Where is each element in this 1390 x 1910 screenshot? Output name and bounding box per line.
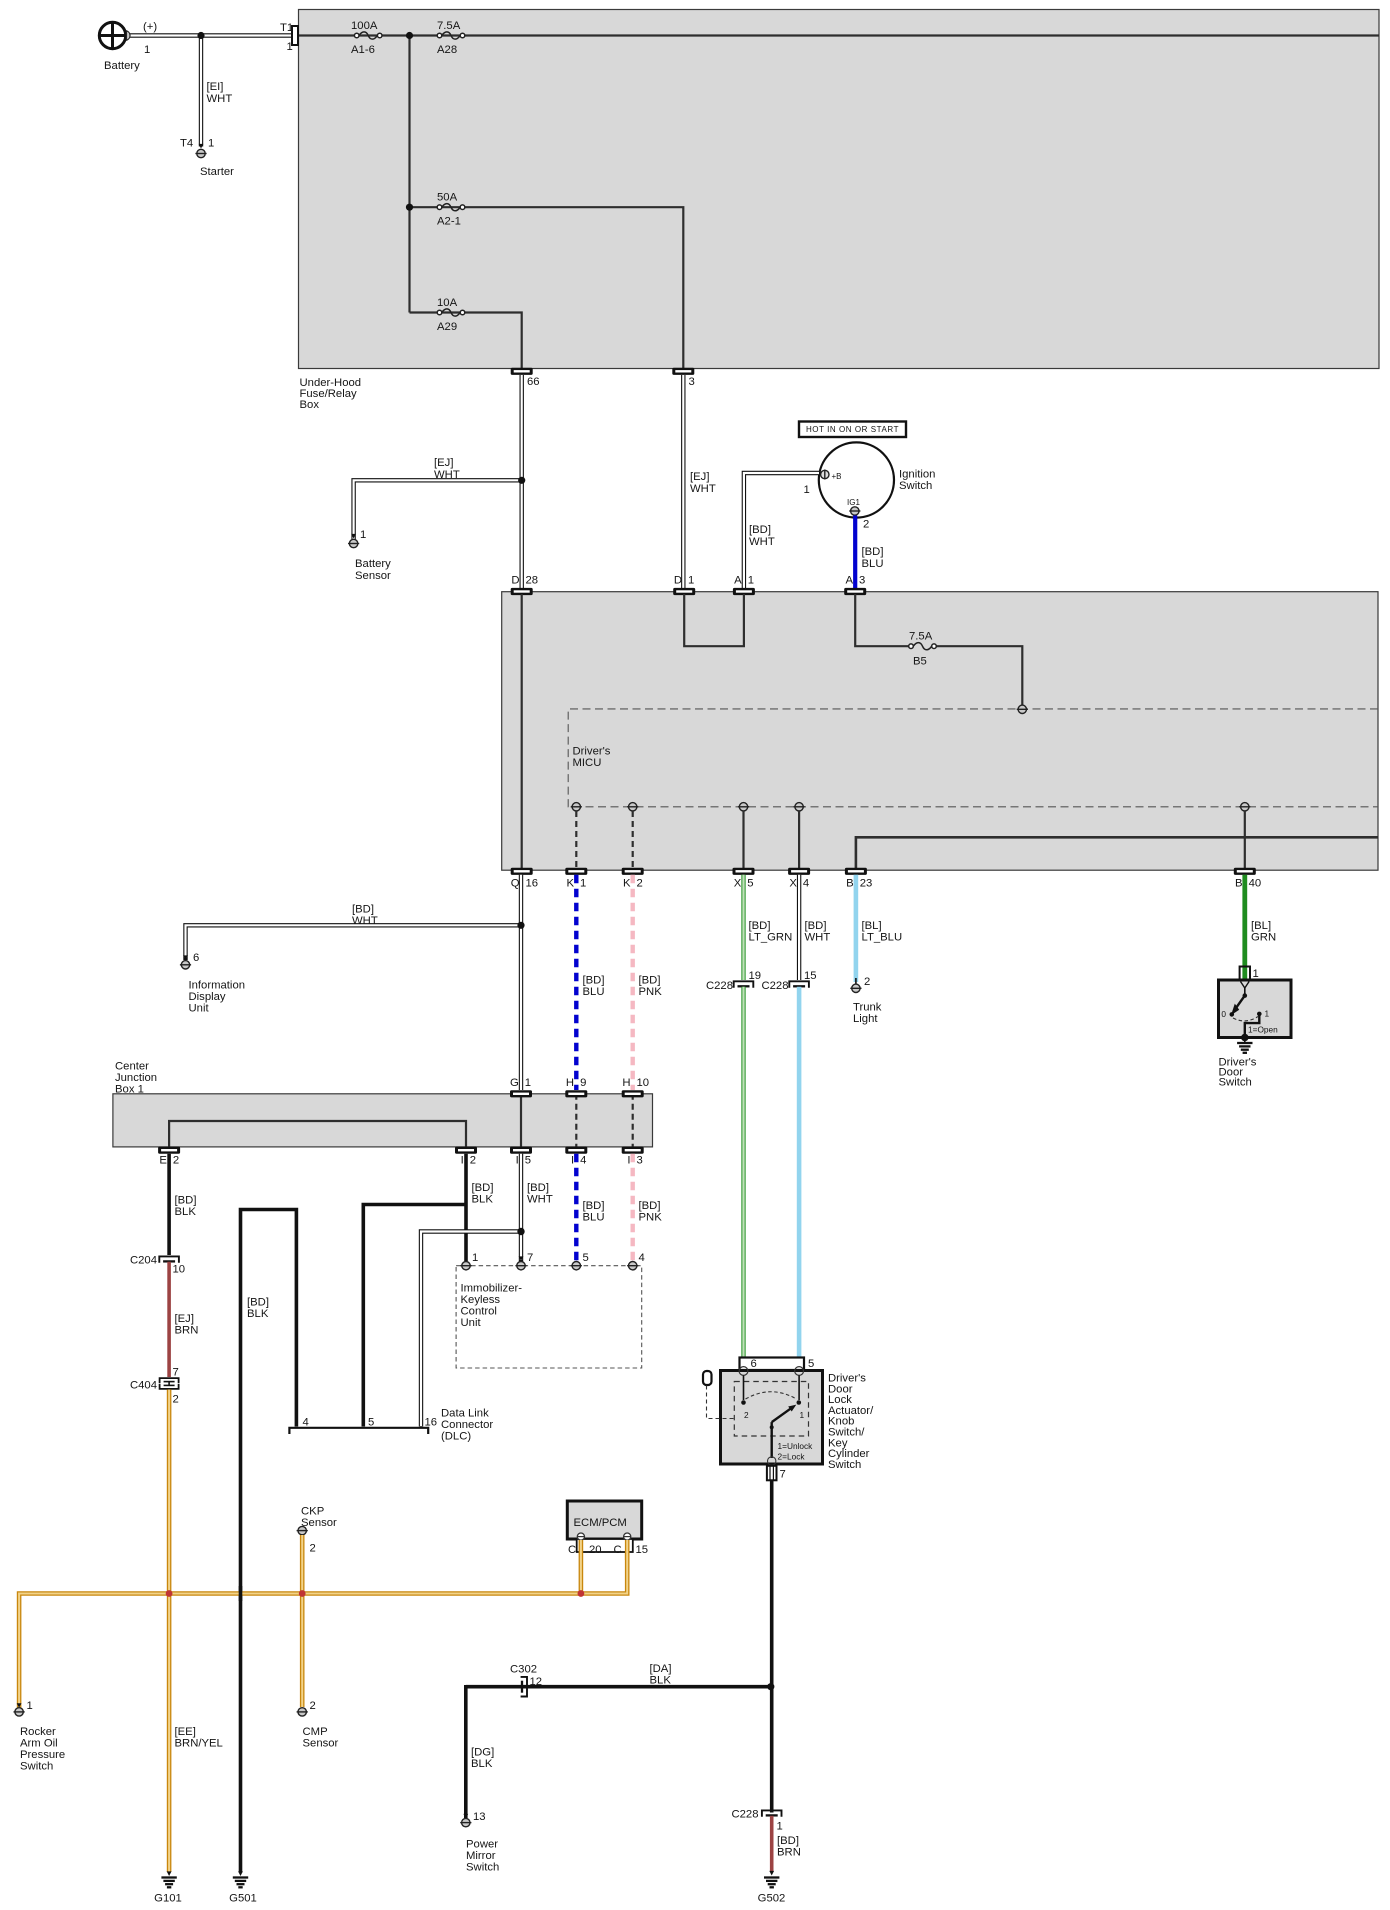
svg-text:C404: C404 [130,1380,157,1392]
svg-text:LT_BLU: LT_BLU [862,932,903,944]
svg-text:Switch: Switch [828,1459,861,1471]
svg-text:[BD]: [BD] [777,1835,799,1847]
label [DA] BLK [650,1663,672,1687]
dashed arc between contacts [746,1392,797,1399]
pin 7 connector [767,1466,786,1481]
wire C204 -> C404 maroon [167,1262,171,1377]
connector A3 [844,575,866,596]
CJB internal wire H10 - I3 dashed [632,1094,634,1147]
svg-text:Unit: Unit [189,1003,210,1015]
label [BD] BRN [777,1835,801,1859]
svg-text:1: 1 [525,1077,531,1089]
wire K2 -> H10 dashed pink [631,875,635,1090]
svg-text:BLK: BLK [650,1675,672,1687]
svg-text:3: 3 [689,376,695,388]
svg-text:CMP: CMP [303,1726,328,1738]
trunk light terminal [850,976,882,1025]
svg-text:0: 0 [1221,1009,1226,1019]
svg-text:C: C [568,1544,576,1556]
svg-text:G: G [510,1077,519,1089]
wire terminal -> K1 (dashed) [575,811,577,868]
svg-text:(+): (+) [143,21,157,33]
svg-text:Q: Q [511,878,520,890]
label [BD] PNK [639,975,663,999]
wire B40 -> door switch (green) [1242,875,1247,980]
svg-text:T1: T1 [280,22,293,34]
wire branch to information display unit (white double) [183,925,521,960]
svg-text:WHT: WHT [527,1194,553,1206]
svg-text:2: 2 [470,1155,476,1167]
dashed internal rect [734,1382,808,1437]
svg-text:7: 7 [173,1367,179,1379]
svg-text:BLU: BLU [862,558,884,570]
svg-text:7: 7 [527,1252,533,1264]
ground G101 [154,1878,182,1905]
svg-text:BRN: BRN [777,1847,801,1859]
svg-text:66: 66 [527,376,540,388]
svg-text:IG1: IG1 [847,498,860,507]
key cylinder symbol [703,1371,734,1419]
wire D28 -> Q16 inside MICU [521,594,523,868]
svg-text:5: 5 [747,878,753,890]
svg-text:Sensor: Sensor [355,570,391,582]
immobilizer pin 4 [627,1252,645,1270]
information display unit terminal [180,952,245,1015]
label [BD] WHT [805,920,831,944]
connector K1 [565,868,587,890]
svg-text:[EI]: [EI] [207,81,224,93]
fuse 10A A29 [437,297,465,333]
svg-text:I: I [627,1155,630,1167]
svg-text:Driver's: Driver's [573,746,611,758]
svg-text:13: 13 [473,1811,486,1823]
label [BD] BLK [175,1195,197,1219]
ground G501 [229,1878,257,1905]
svg-text:[BD]: [BD] [749,920,771,932]
MICU internal terminal (fuse B5 output) [1017,705,1028,713]
svg-text:1: 1 [27,1700,33,1712]
wire I5 -> immobilizer pin 7 white double, branch to DLC 16 [421,1154,521,1427]
svg-text:3: 3 [637,1155,643,1167]
label [BD] BLU [862,546,884,570]
wire C228 -> door lock pin 6 (green double) [741,987,745,1368]
svg-text:Light: Light [853,1013,878,1025]
svg-text:C228: C228 [731,1809,758,1821]
wire B23 -> trunk light (light blue) [854,875,859,982]
svg-text:B: B [846,878,854,890]
svg-text:H: H [622,1077,630,1089]
svg-text:3: 3 [859,575,865,587]
svg-text:BRN/YEL: BRN/YEL [175,1738,223,1750]
+B terminal [804,470,842,497]
wire CKP -> CMP orange [300,1535,305,1707]
svg-text:10A: 10A [437,297,458,309]
junction dot CKP wire x bus [299,1590,306,1597]
svg-text:40: 40 [1249,878,1262,890]
label [EJ] WHT at wire 3 [690,471,716,495]
wire I4 -> immobilizer pin 5 dashed blue [574,1154,578,1262]
svg-text:Box 1: Box 1 [115,1084,144,1096]
wire B23 up and right to box edge [856,837,1378,868]
wire X4 -> C228 15 (white double) [797,875,801,980]
svg-text:5: 5 [808,1358,814,1370]
svg-text:Switch: Switch [466,1862,499,1874]
label [BD] BLU [583,975,605,999]
svg-text:2: 2 [637,878,643,890]
svg-text:[BD]: [BD] [527,1182,549,1194]
svg-text:HOT IN ON OR START: HOT IN ON OR START [806,425,899,434]
[DA] BLK horizontal wire [466,1685,771,1689]
connector C302 12 [510,1664,542,1697]
ECM connector bracket [568,1533,648,1556]
svg-text:(DLC): (DLC) [441,1431,471,1443]
junction dot G101 wire x bus [166,1590,173,1597]
svg-text:1: 1 [777,1821,783,1833]
svg-text:16: 16 [425,1417,438,1429]
CMP sensor [297,1700,339,1750]
svg-text:1: 1 [688,575,694,587]
svg-text:PNK: PNK [639,1212,663,1224]
wire A3 -> fuse B5 -> internal terminal [855,594,1022,705]
fuse 7.5A A28 [437,20,465,56]
svg-text:Switch: Switch [1219,1077,1252,1089]
svg-text:[BD]: [BD] [175,1195,197,1207]
wire: 50A branch to connector 3 [410,207,684,368]
label [BD] LT_GRN [749,920,793,944]
pin 6 circle [739,1367,748,1376]
driver's door lock actuator box [721,1371,875,1471]
svg-text:19: 19 [749,970,762,982]
svg-text:Battery: Battery [355,558,391,570]
label [BD] WHT [352,904,378,928]
fuse 100A A1-6 [351,20,382,56]
svg-text:4: 4 [580,1155,586,1167]
svg-text:4: 4 [803,878,809,890]
svg-text:Ignition: Ignition [899,469,935,481]
svg-text:10: 10 [637,1077,650,1089]
wire terminal -> X5 [742,811,744,868]
svg-text:[BD]: [BD] [352,904,374,916]
fuse 7.5A B5 [909,631,937,668]
wire: branch down to starter (white double) [199,37,204,149]
svg-text:ECM/PCM: ECM/PCM [574,1517,627,1529]
svg-text:1=Open: 1=Open [1248,1025,1278,1035]
top connector housing [740,1358,815,1371]
driver's door switch box [1219,980,1292,1089]
wire: battery to T1 (white double) [128,33,293,37]
svg-text:100A: 100A [351,20,378,32]
svg-text:2: 2 [173,1155,179,1167]
label [BD] PNK at I3 [639,1200,663,1224]
battery [99,21,157,72]
svg-text:A: A [845,575,853,587]
data link connector (DLC) [289,1408,493,1443]
svg-text:23: 23 [860,878,873,890]
svg-text:[BD]: [BD] [583,975,605,987]
svg-text:16: 16 [526,878,539,890]
label [BD] WHT at A1 wire [749,524,775,548]
immobilizer pin 1 [460,1252,478,1270]
svg-text:20: 20 [589,1544,602,1556]
connector E2 [158,1147,180,1167]
junction at bus [406,32,413,39]
label [EJ] BRN [175,1313,199,1337]
connector B40 [1234,868,1261,890]
wire D1 -> A1 inside MICU [684,594,744,646]
svg-text:7.5A: 7.5A [437,20,461,32]
svg-text:1: 1 [1265,1009,1270,1019]
MICU internal terminals on lower dashed line [571,803,582,811]
svg-text:B5: B5 [913,656,927,668]
driver's MICU box [502,592,1378,871]
wire pin7 -> C228 black [770,1480,774,1812]
svg-text:2=Lock: 2=Lock [778,1452,806,1462]
svg-text:[EJ]: [EJ] [434,457,453,469]
svg-text:[BD]: [BD] [805,920,827,932]
connector K2 [622,868,644,890]
connector C228 19 [706,970,761,992]
svg-text:WHT: WHT [805,932,831,944]
svg-text:2: 2 [863,519,869,531]
svg-text:[BD]: [BD] [639,1200,661,1212]
svg-text:BLK: BLK [175,1206,197,1218]
svg-text:50A: 50A [437,192,458,204]
connector D28 [511,575,538,596]
svg-text:Sensor: Sensor [301,1517,337,1529]
wire IG1 -> A3 blue [853,516,857,589]
CJB internal wire H9 - I4 dashed [575,1094,577,1147]
svg-text:BLU: BLU [583,1212,605,1224]
svg-text:Keyless: Keyless [461,1294,501,1306]
svg-text:2: 2 [864,976,870,988]
svg-text:1: 1 [144,44,150,56]
svg-text:Switch: Switch [899,480,932,492]
label [BD] BLK at G501 wire [247,1297,269,1321]
svg-text:H: H [566,1077,574,1089]
svg-text:E: E [159,1155,167,1167]
G501 wire overlay over bus [239,1586,243,1601]
connector 3 [672,368,694,388]
svg-text:Trunk: Trunk [853,1002,882,1014]
svg-text:12: 12 [530,1676,543,1688]
T1 connector [280,22,298,53]
connector Q16 [511,868,538,890]
CKP sensor [297,1506,337,1555]
wire K1 -> H9 dashed blue [574,875,578,1090]
connector B23 [845,868,872,890]
wire ECM pin20 -> bus orange [579,1540,584,1592]
wire C228 -> G502 maroon [769,1816,774,1876]
svg-text:1: 1 [800,1410,805,1420]
connector D1 [673,575,695,596]
fuse 50A A2-1 [437,192,465,228]
wire C404 -> G101 orange [167,1390,172,1877]
svg-text:MICU: MICU [573,757,602,769]
svg-text:Box: Box [300,399,320,411]
connector C204 10 [130,1255,185,1276]
wire I2 -> immobilizer pin 1, branch to DLC 5 [363,1154,466,1427]
svg-text:[DA]: [DA] [650,1663,672,1675]
switch contact 1 [797,1375,805,1420]
svg-text:CKP: CKP [301,1506,324,1518]
svg-text:2: 2 [310,1543,316,1555]
svg-text:WHT: WHT [690,483,716,495]
wire: main bus from T1 across box [295,34,1379,36]
svg-text:C: C [614,1544,622,1556]
svg-text:Unit: Unit [461,1317,482,1329]
svg-text:[BD]: [BD] [247,1297,269,1309]
wire: vertical branch from A1-6 bus down [408,36,410,313]
svg-text:I: I [461,1155,464,1167]
connector X5 [733,868,755,890]
svg-text:Data Link: Data Link [441,1408,489,1420]
connector I4 [565,1147,587,1167]
wire terminal -> K2 (dashed) [632,811,634,868]
svg-text:[EJ]: [EJ] [690,471,709,483]
pin 7 circle at box bottom [768,1457,776,1465]
svg-text:GRN: GRN [1251,932,1276,944]
wire 3 -> D1 (white double) [681,375,685,589]
connector C228 15 [761,970,816,992]
switch contact 2 [741,1375,749,1420]
svg-text:6: 6 [751,1358,757,1370]
wire down to power mirror switch [463,1685,468,1819]
svg-text:28: 28 [526,575,539,587]
svg-text:B: B [1235,878,1243,890]
svg-text:1: 1 [748,575,754,587]
svg-text:Pressure: Pressure [20,1749,65,1761]
svg-text:Power: Power [466,1839,498,1851]
wire I3 -> immobilizer pin 4 dashed pink [631,1154,635,1262]
svg-text:6: 6 [193,952,199,964]
svg-text:LT_GRN: LT_GRN [749,932,793,944]
svg-text:1: 1 [580,878,586,890]
svg-text:5: 5 [525,1155,531,1167]
junction 50A [406,204,413,211]
svg-text:1: 1 [208,138,214,150]
rocker arm oil pressure switch terminal [14,1700,66,1773]
switch lever with arrow [770,1405,797,1458]
svg-text:BLK: BLK [247,1308,269,1320]
svg-text:Junction: Junction [115,1072,157,1084]
ground at door switch [1237,1038,1252,1053]
svg-text:X: X [789,878,797,890]
svg-text:BRN: BRN [175,1325,199,1337]
svg-text:A1-6: A1-6 [351,44,375,56]
svg-text:15: 15 [636,1544,649,1556]
svg-text:K: K [566,878,574,890]
IG1 terminal [847,498,869,531]
svg-text:Mirror: Mirror [466,1850,496,1862]
starter terminal T4 [180,138,234,179]
svg-text:A: A [734,575,742,587]
svg-text:[BL]: [BL] [1251,920,1271,932]
connector G1 [510,1077,532,1097]
svg-text:I: I [571,1155,574,1167]
svg-text:10: 10 [173,1264,186,1276]
svg-text:C228: C228 [761,980,788,992]
svg-text:BLK: BLK [471,1758,493,1770]
wire ECM pin15 stub over bracket [625,1540,630,1560]
svg-text:Center: Center [115,1061,149,1073]
svg-text:1: 1 [1253,968,1259,980]
svg-text:G502: G502 [758,1893,786,1905]
connector I5 [510,1147,532,1167]
label [EI] WHT [207,81,233,105]
connector I2 [455,1147,477,1167]
svg-text:A28: A28 [437,44,457,56]
svg-text:[BD]: [BD] [472,1182,494,1194]
wire terminal -> X4 [798,811,800,868]
label [BL] LT_BLU [862,920,903,944]
svg-text:Information: Information [189,980,246,992]
svg-text:Rocker: Rocker [20,1726,56,1738]
svg-text:WHT: WHT [352,915,378,927]
svg-text:5: 5 [583,1252,589,1264]
svg-text:D: D [674,575,682,587]
svg-text:[DG]: [DG] [471,1747,494,1759]
wire Q16 -> G1 (white double) [519,875,523,1090]
connector X4 [788,868,810,890]
svg-text:[BL]: [BL] [862,920,882,932]
label [BD] WHT at I5 [527,1182,553,1206]
wire 66 -> D28 (white double) [520,375,524,589]
svg-text:7: 7 [780,1469,786,1481]
label [BD] BLK at I2 [472,1182,494,1206]
immobilizer-keyless control unit dashed box [456,1266,642,1368]
label [BL] GRN [1251,920,1276,944]
svg-text:4: 4 [639,1252,645,1264]
connector C404 [130,1367,179,1406]
label [EJ] WHT above branch [434,457,460,481]
svg-text:BLK: BLK [472,1194,494,1206]
svg-text:WHT: WHT [749,536,775,548]
svg-text:Arm Oil: Arm Oil [20,1738,58,1750]
ground G502 [758,1878,786,1905]
svg-text:+B: +B [832,472,842,481]
CJB internal wire E2 - I2 [169,1121,466,1147]
svg-text:Starter: Starter [200,166,234,178]
svg-text:D: D [511,575,519,587]
svg-text:Connector: Connector [441,1419,493,1431]
svg-text:Immobilizer-: Immobilizer- [461,1283,523,1295]
wire E2 -> C204 black [167,1154,171,1255]
svg-text:A2-1: A2-1 [437,216,461,228]
junction on I5 wire [517,1228,524,1235]
connector I3 [622,1147,644,1167]
power mirror switch terminal [460,1811,499,1874]
svg-text:[BD]: [BD] [749,524,771,536]
wire C228 -> door lock pin 5 (light blue) [797,987,802,1368]
svg-text:K: K [623,878,631,890]
junction battery/starter [197,32,204,39]
CJB internal wire G1 - I5 [520,1094,522,1147]
label [DG] BLK [471,1747,494,1771]
pin 5 circle [795,1367,804,1376]
svg-text:C204: C204 [130,1255,157,1267]
svg-text:[EJ]: [EJ] [175,1313,194,1325]
svg-text:Sensor: Sensor [303,1738,339,1750]
svg-text:7.5A: 7.5A [909,631,933,643]
connector C228 1 [731,1809,782,1833]
immobilizer pin 7 [515,1252,533,1270]
orange bus horizontal + rocker drop + ECM15 riser [17,1540,628,1708]
svg-text:4: 4 [303,1417,309,1429]
junction on wire 66 [518,477,525,484]
junction dot [DA]BLK tee [767,1683,774,1690]
connector H9 [565,1077,587,1097]
svg-text:Battery: Battery [104,60,140,72]
